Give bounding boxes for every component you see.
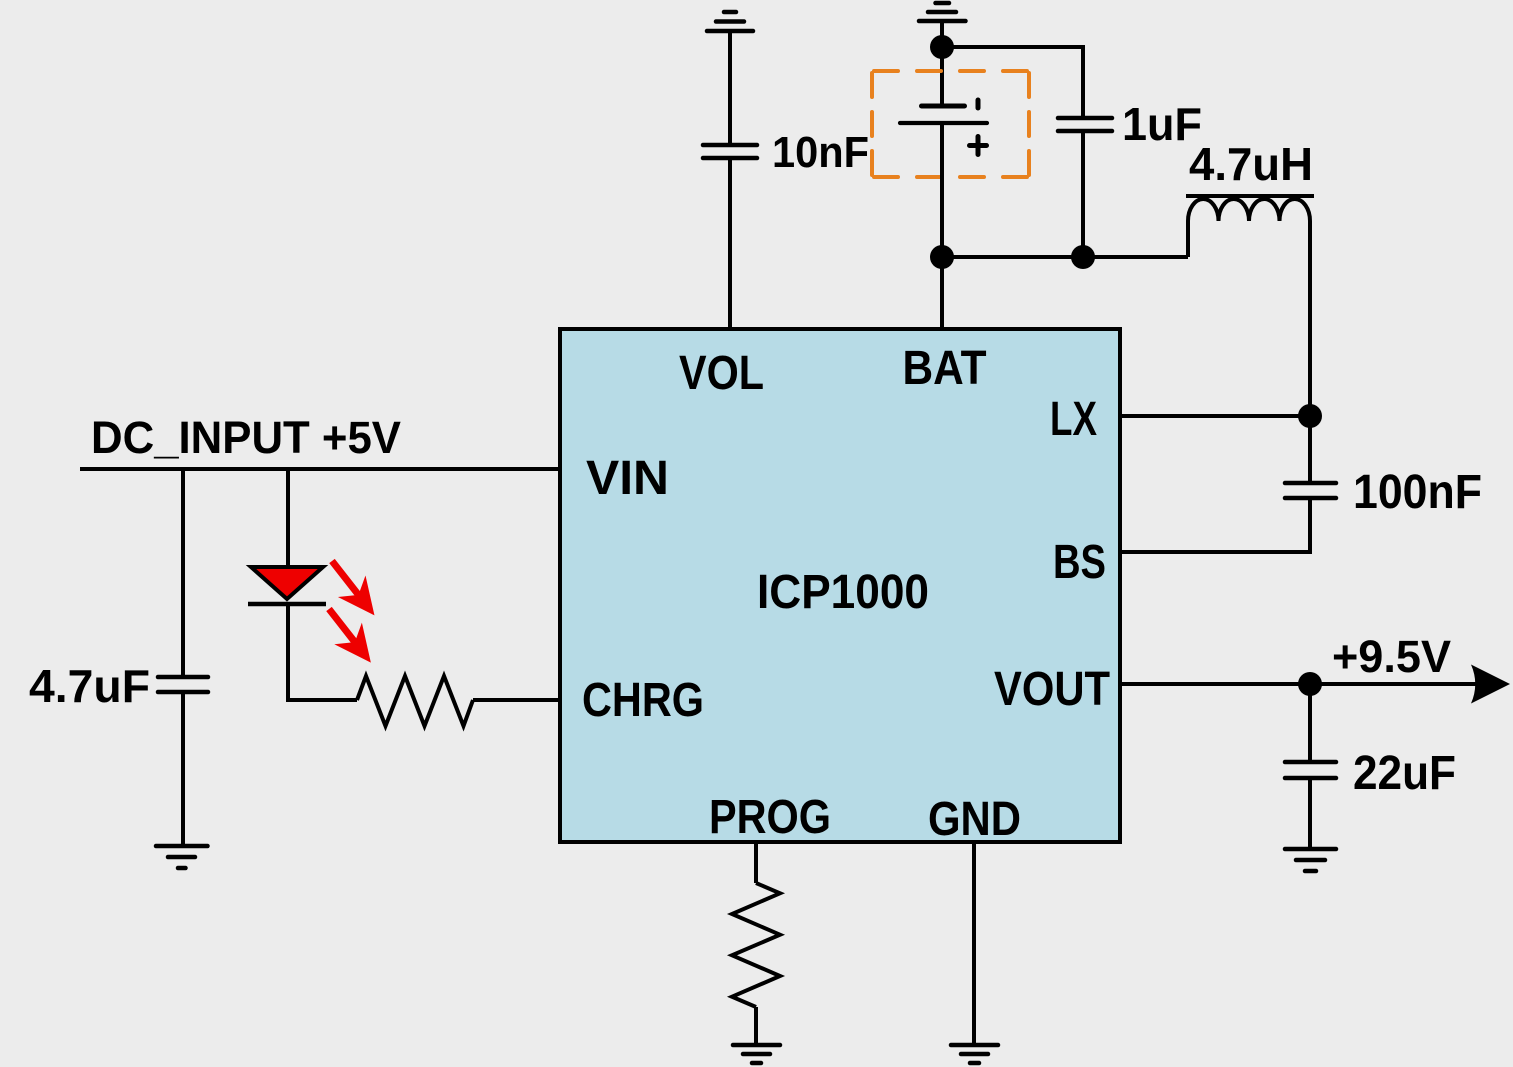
svg-text:CHRG: CHRG	[582, 674, 704, 727]
wire 4.7uF to ground	[181, 692, 185, 846]
wire VOL to 10nF	[728, 31, 732, 145]
LED light arrow 2	[315, 598, 384, 673]
svg-text:LX: LX	[1050, 393, 1097, 446]
node junction battery top	[930, 35, 954, 59]
node junction BAT rail right	[1071, 245, 1095, 269]
svg-text:VOUT: VOUT	[994, 663, 1110, 716]
node junction BAT rail left	[930, 245, 954, 269]
resistor R2 PROG	[732, 883, 780, 1007]
wire 100nF to BS pin	[1120, 498, 1310, 552]
wire 22uF to ground	[1308, 778, 1312, 849]
wire PROG resistor to ground	[754, 1007, 758, 1045]
IC U1 ICP1000 body	[560, 329, 1120, 842]
LED D1	[248, 567, 326, 604]
battery BT1	[900, 100, 987, 155]
wire BAT rail horizontal	[942, 255, 1188, 259]
capacitor C4 22uF	[1285, 762, 1336, 778]
wire VOUT to 22uF	[1308, 684, 1312, 762]
wire VOUT rail	[1120, 682, 1480, 686]
wire 1uF to node	[1081, 131, 1085, 257]
arrow head +9.5V output	[1471, 665, 1510, 704]
svg-text:DC_INPUT +5V: DC_INPUT +5V	[91, 412, 401, 463]
svg-text:22uF: 22uF	[1353, 747, 1456, 800]
wire BAT node to BAT pin	[940, 257, 944, 329]
capacitor C1 10nF	[703, 145, 757, 158]
ground top (BAT net)	[919, 3, 966, 21]
capacitor C3 100nF	[1285, 483, 1336, 498]
wire DC input rail	[80, 467, 560, 471]
LED light arrow 1	[318, 550, 388, 626]
ground 4.7uF	[156, 846, 208, 868]
resistor R1 CHRG	[357, 676, 473, 726]
ground 22uF	[1285, 849, 1336, 871]
wire 10nF to VOL pin	[728, 158, 732, 329]
svg-text:4.7uF: 4.7uF	[29, 660, 150, 712]
ground PROG	[733, 1045, 780, 1063]
wire LED to resistor	[288, 604, 357, 700]
wire to 4.7uF	[181, 469, 185, 677]
wire GND pin down	[972, 842, 976, 1045]
svg-text:4.7uH: 4.7uH	[1189, 138, 1313, 190]
node junction VOUT	[1298, 672, 1322, 696]
inductor L1 4.7uH	[1186, 196, 1314, 483]
svg-text:+9.5V: +9.5V	[1332, 631, 1451, 682]
svg-text:10nF: 10nF	[772, 128, 869, 177]
wire battery to BAT node	[940, 123, 944, 257]
svg-text:ICP1000: ICP1000	[757, 566, 929, 619]
svg-text:GND: GND	[928, 793, 1021, 846]
wire to LED	[286, 469, 290, 567]
svg-text:BAT: BAT	[903, 342, 987, 395]
svg-text:VOL: VOL	[679, 347, 764, 400]
ground top (VOL net)	[707, 12, 753, 31]
wire battery top node to 1uF	[942, 47, 1083, 118]
battery enclosure dashed box	[872, 71, 1029, 177]
svg-text:PROG: PROG	[709, 791, 831, 844]
capacitor C5 4.7uF	[158, 677, 208, 692]
ground GND	[951, 1045, 998, 1063]
wire ground to battery	[940, 21, 944, 106]
svg-text:100nF: 100nF	[1353, 466, 1482, 519]
node junction LX	[1298, 404, 1322, 428]
svg-text:BS: BS	[1053, 536, 1106, 589]
capacitor C2 1uF	[1058, 118, 1112, 131]
wire PROG pin down	[754, 842, 758, 883]
svg-text:VIN: VIN	[586, 452, 669, 505]
wire resistor to CHRG pin	[473, 698, 560, 702]
wire LX pin	[1120, 414, 1310, 418]
